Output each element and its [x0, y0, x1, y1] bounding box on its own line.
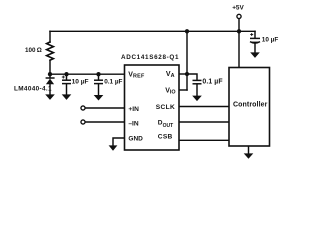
svg-text:0.1 µF: 0.1 µF — [202, 79, 222, 86]
ground C3 — [192, 96, 202, 102]
node VREF/resistor junction — [48, 72, 52, 76]
wire VA pin — [179, 73, 187, 75]
node junction dots — [48, 29, 241, 76]
wire -IN — [85, 121, 125, 123]
controller U2 box — [229, 68, 270, 147]
node VA junction — [185, 72, 189, 76]
wire controller ground — [248, 146, 250, 153]
wire to C4 — [254, 31, 256, 38]
diode D1 anode wire — [49, 84, 51, 95]
capacitor C1 10uF wire top — [66, 74, 68, 80]
capacitor C2 0.1uF wire top — [98, 74, 100, 80]
capacitor C2 0.1uF plates — [94, 80, 103, 83]
ground ADC GND pin — [109, 145, 118, 150]
svg-text:100 Ω: 100 Ω — [25, 47, 42, 54]
capacitor C1 10uF wire bottom — [66, 84, 68, 95]
diode D1 LM4040-4.1 zener — [46, 78, 55, 84]
svg-text:LM4040-4.1: LM4040-4.1 — [14, 85, 52, 92]
node C2 junction — [96, 72, 100, 76]
resistor R1 100 ohm — [47, 42, 54, 60]
node +5V / top rail junction — [237, 29, 241, 33]
wire top rail +5V — [50, 30, 255, 32]
ground C4 — [250, 52, 260, 58]
terminal +IN — [81, 106, 85, 110]
C4 plus sign — [250, 33, 253, 36]
terminal +5V — [237, 14, 241, 18]
wire VA bus vertical — [186, 31, 188, 90]
capacitor C4 10uF wire bottom — [254, 44, 256, 53]
capacitor C3 0.1uF plates — [193, 80, 202, 83]
svg-text:ADC141S628-Q1: ADC141S628-Q1 — [121, 54, 179, 61]
svg-text:10 µF: 10 µF — [262, 36, 279, 43]
wire GND pin — [113, 138, 125, 145]
wire VIO pin — [179, 89, 187, 91]
capacitor C4 10uF plates — [250, 38, 260, 43]
ground controller — [244, 153, 254, 158]
diode D1 LM4040 cathode wire — [49, 74, 51, 78]
node VA bus / top rail junction — [185, 29, 189, 33]
ground D1 — [45, 94, 55, 100]
wire CSB — [179, 139, 229, 141]
svg-text:+IN: +IN — [128, 106, 139, 113]
C1 plus sign — [62, 76, 65, 79]
wire VREF rail — [50, 73, 125, 75]
svg-text:CSB: CSB — [158, 134, 173, 141]
wire controller VCC — [238, 31, 240, 68]
wire SCLK — [179, 106, 229, 108]
terminal -IN — [81, 120, 85, 124]
svg-text:VA: VA — [166, 71, 175, 79]
svg-text:0.1 µF: 0.1 µF — [104, 79, 122, 86]
svg-text:10 µF: 10 µF — [72, 78, 89, 85]
wire +IN — [85, 107, 125, 109]
svg-text:Controller: Controller — [233, 102, 268, 109]
wire DOUT — [179, 121, 229, 123]
svg-text:+5V: +5V — [232, 5, 244, 12]
capacitor C1 10uF plates — [62, 80, 71, 83]
wire resistor bottom — [49, 60, 51, 74]
capacitor C3 0.1uF wire bottom — [196, 84, 198, 96]
wire to C3 — [187, 74, 197, 80]
wire +5V terminal down — [238, 18, 240, 31]
svg-text:SCLK: SCLK — [156, 104, 175, 111]
IC U1 ADC141S628-Q1 box — [125, 65, 180, 150]
svg-text:VREF: VREF — [128, 72, 145, 80]
capacitor C2 0.1uF wire bottom — [98, 84, 100, 95]
svg-text:VIO: VIO — [165, 88, 175, 96]
wire resistor top — [49, 31, 51, 42]
ground C1 — [62, 94, 72, 100]
node C1 junction — [64, 72, 68, 76]
ground C2 — [94, 95, 104, 101]
svg-text:GND: GND — [128, 136, 143, 143]
svg-text:–IN: –IN — [128, 121, 138, 128]
